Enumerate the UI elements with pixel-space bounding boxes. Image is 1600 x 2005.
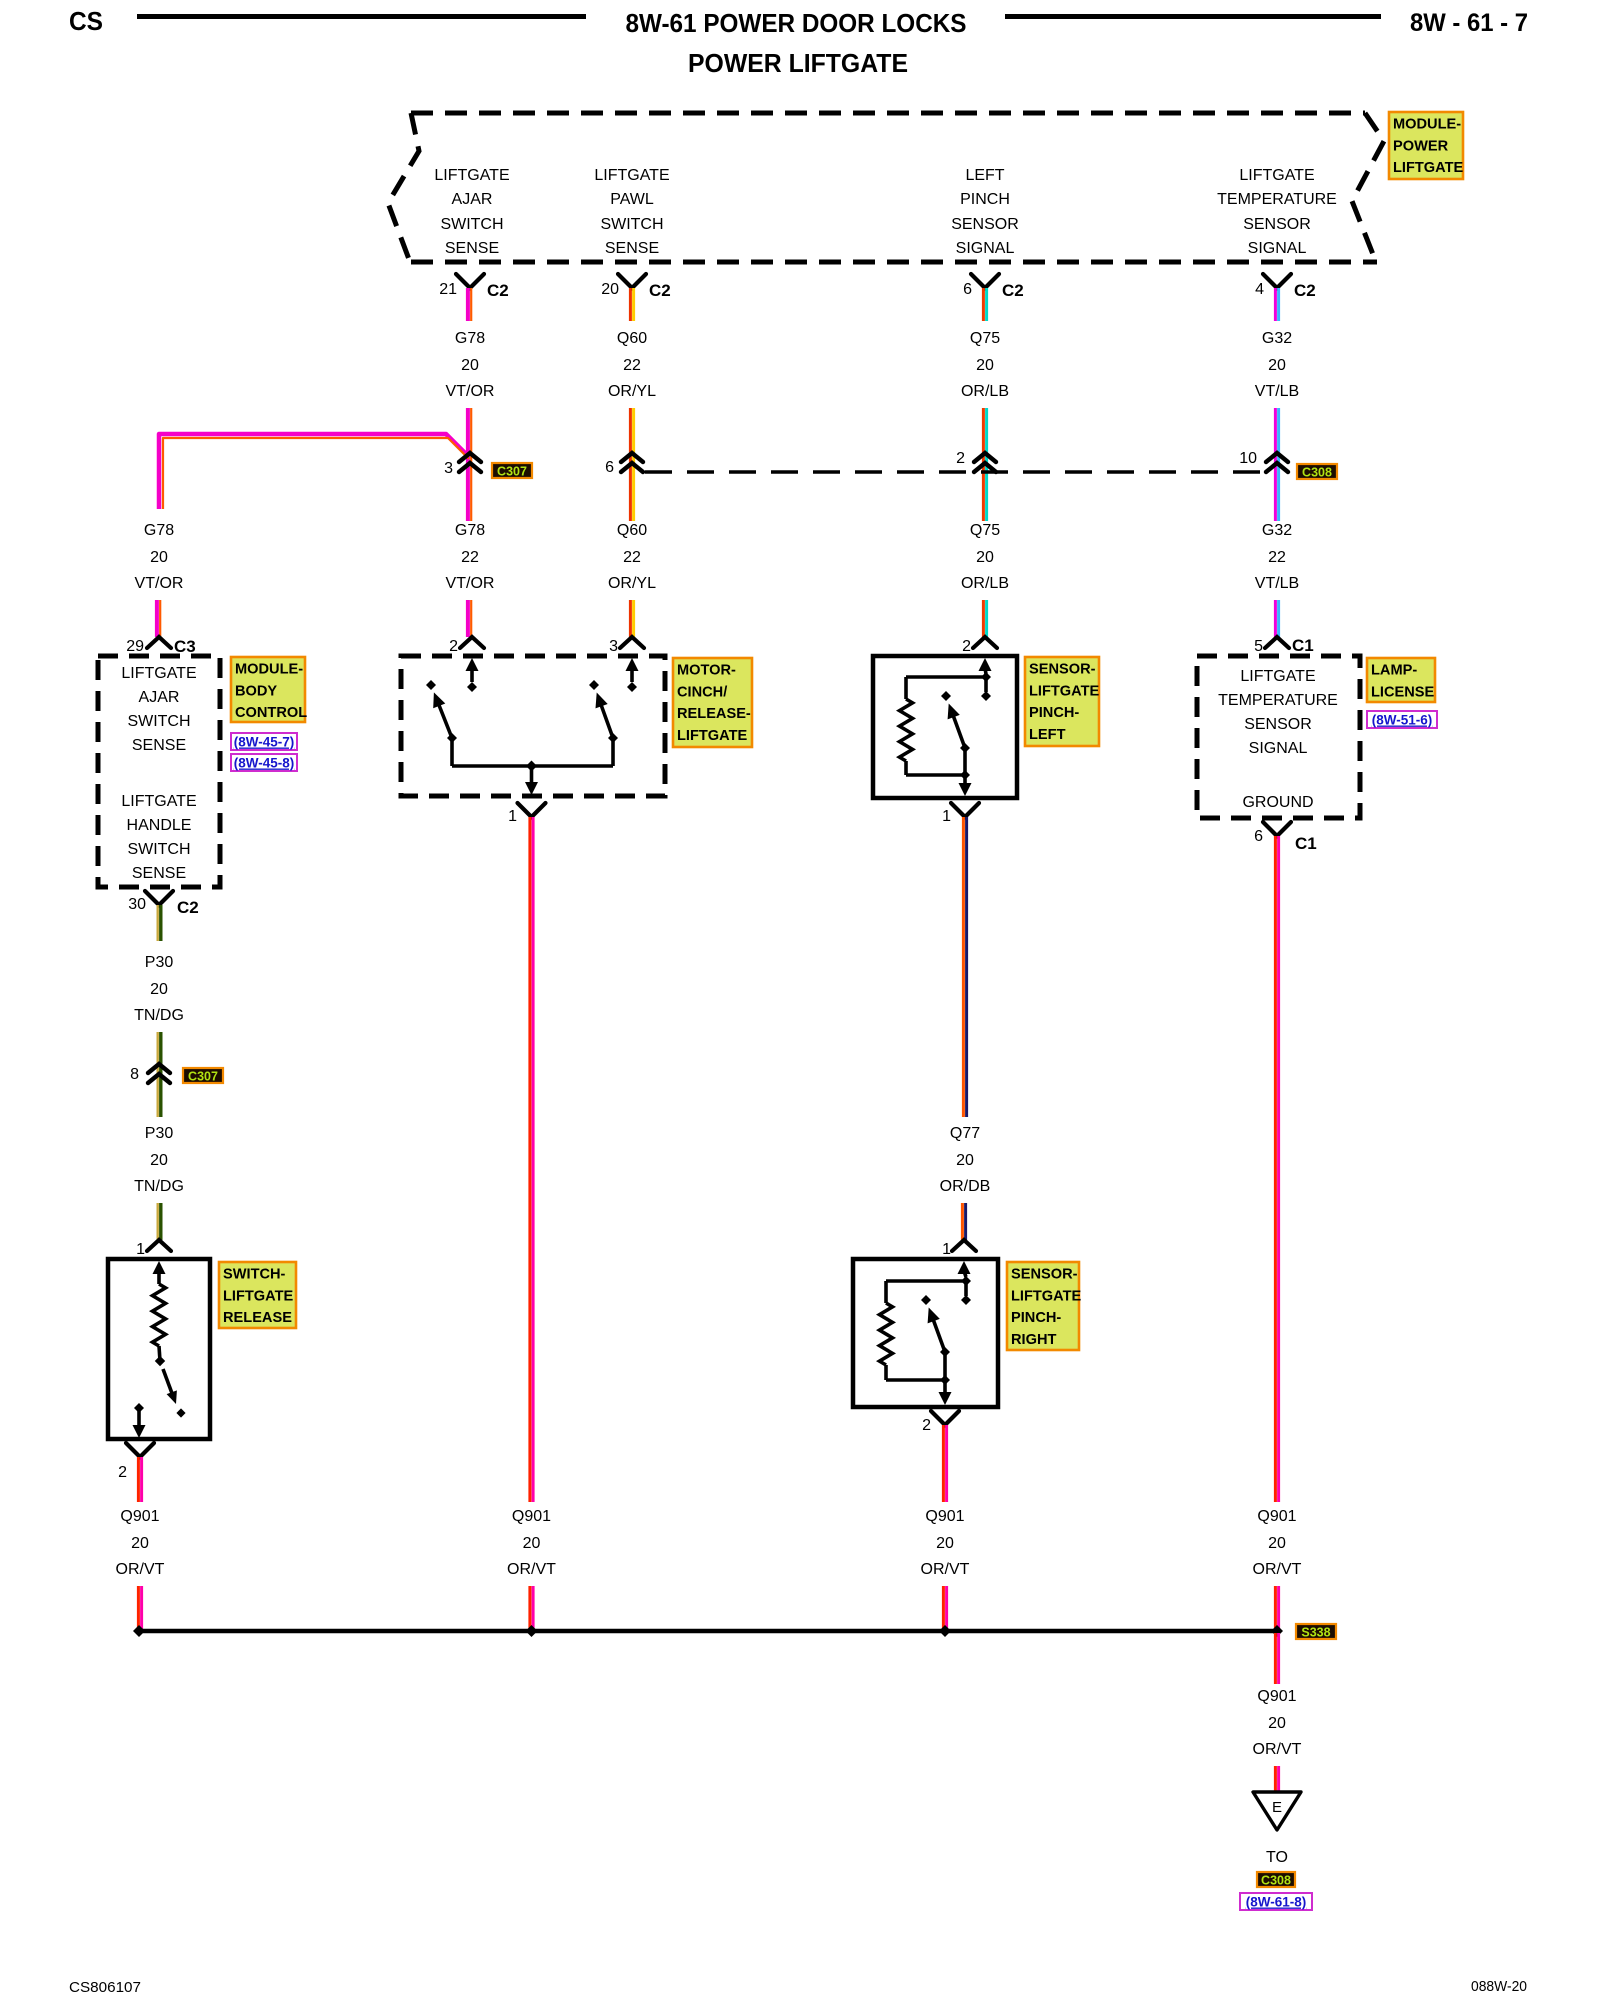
svg-text:TEMPERATURE: TEMPERATURE <box>1218 692 1338 709</box>
wire Q901 from release switch <box>138 1457 141 1502</box>
label LAMP-LICENSE <box>1367 658 1435 702</box>
svg-text:21: 21 <box>439 281 457 298</box>
label wire P30 20 TN/DG <box>134 954 184 1024</box>
wire Q75 to left pinch sensor <box>983 600 986 637</box>
svg-text:SENSE: SENSE <box>445 240 499 257</box>
svg-text:(8W-51-6): (8W-51-6) <box>1372 713 1433 728</box>
svg-text:SENSOR: SENSOR <box>951 216 1019 233</box>
svg-text:3: 3 <box>444 460 453 477</box>
wire Q901 from temperature sensor ground <box>1275 836 1278 1502</box>
body control module pin text liftgate handle switch sense <box>121 793 196 882</box>
pin number 21 <box>439 281 457 298</box>
svg-text:G32: G32 <box>1262 330 1292 347</box>
svg-text:LIFTGATE: LIFTGATE <box>677 728 748 744</box>
label MOTOR-CINCH/RELEASE-LIFTGATE <box>673 658 752 747</box>
label wire Q901 20 OR/VT <box>1253 1508 1302 1578</box>
svg-text:1: 1 <box>942 1241 951 1258</box>
label wire G78 20 VT/OR left <box>135 522 184 592</box>
svg-text:PINCH-: PINCH- <box>1011 1310 1061 1326</box>
left pinch pin 1 fork <box>951 803 979 817</box>
label wire Q77 20 OR/DB <box>940 1125 991 1195</box>
dashed wire link C307 to C308 row <box>645 470 1268 473</box>
connector C1 pin 5 fork <box>1265 637 1289 648</box>
wire G78 branch to body control module <box>159 434 469 509</box>
svg-text:(8W-45-8): (8W-45-8) <box>234 756 295 771</box>
module U2 BODY CONTROL dashed box <box>98 656 220 887</box>
svg-text:OR/LB: OR/LB <box>961 383 1009 400</box>
svg-text:SWITCH: SWITCH <box>127 713 190 730</box>
junction node S338 <box>1271 1625 1283 1637</box>
svg-text:LIFTGATE: LIFTGATE <box>1393 160 1464 176</box>
svg-text:C307: C307 <box>188 1070 218 1084</box>
svg-text:Q901: Q901 <box>1257 1688 1296 1705</box>
svg-text:OR/DB: OR/DB <box>940 1178 991 1195</box>
temperature sensor pin text <box>1218 668 1338 757</box>
svg-text:6: 6 <box>963 281 972 298</box>
svg-text:LIFTGATE: LIFTGATE <box>1011 1288 1082 1304</box>
svg-text:SWITCH: SWITCH <box>600 216 663 233</box>
svg-text:SENSOR-: SENSOR- <box>1011 1267 1078 1283</box>
svg-text:C2: C2 <box>1294 281 1316 300</box>
svg-text:TN/DG: TN/DG <box>134 1007 184 1024</box>
wire Q901 below splice <box>1275 1633 1278 1684</box>
svg-text:20: 20 <box>150 1152 168 1169</box>
footer drawing number <box>1471 1978 1527 1995</box>
wire G78 to body control module <box>157 600 160 637</box>
svg-text:MODULE-: MODULE- <box>235 662 303 678</box>
label wire Q60 22 OR/YL b <box>608 522 656 592</box>
motor pin 1 fork <box>518 803 546 817</box>
reference link 8W-51-6 <box>1367 711 1437 728</box>
svg-text:20: 20 <box>976 549 994 566</box>
svg-text:Q901: Q901 <box>1257 1508 1296 1525</box>
svg-text:VT/LB: VT/LB <box>1255 575 1299 592</box>
left pinch resistor branch <box>900 677 987 775</box>
svg-text:3: 3 <box>609 638 618 655</box>
sensor LIFTGATE TEMPERATURE dashed box (lamp-license) <box>1197 656 1360 818</box>
wire Q75 above C308 <box>983 408 986 521</box>
wire Q901 to splice col2 <box>530 1586 533 1631</box>
connector name C2 <box>649 281 671 300</box>
svg-text:LIFTGATE: LIFTGATE <box>1239 167 1314 184</box>
connector name C2 <box>1294 281 1316 300</box>
svg-text:AJAR: AJAR <box>139 689 180 706</box>
svg-text:20: 20 <box>131 1535 149 1552</box>
svg-text:C3: C3 <box>174 637 196 656</box>
connector C3 pin 29 fork <box>147 637 171 648</box>
svg-text:E: E <box>1272 1799 1282 1816</box>
svg-text:22: 22 <box>623 549 641 566</box>
svg-text:VT/OR: VT/OR <box>135 575 184 592</box>
wire Q75 from module pin 6 <box>983 288 986 321</box>
splice S338 bus wire <box>139 1629 1277 1634</box>
label wire Q901 20 OR/VT <box>921 1508 970 1578</box>
svg-text:TN/DG: TN/DG <box>134 1178 184 1195</box>
label wire Q901 20 OR/VT <box>507 1508 556 1578</box>
svg-text:5: 5 <box>1254 638 1263 655</box>
svg-text:4: 4 <box>1255 281 1264 298</box>
svg-text:MODULE-: MODULE- <box>1393 117 1461 133</box>
svg-text:Q901: Q901 <box>512 1508 551 1525</box>
svg-text:SWITCH: SWITCH <box>440 216 503 233</box>
connector label S338 <box>1296 1624 1336 1640</box>
svg-text:GROUND: GROUND <box>1242 794 1313 811</box>
wire P30 to release switch <box>158 1203 161 1240</box>
svg-text:CINCH/: CINCH/ <box>677 684 727 700</box>
release switch pin 1 fork <box>147 1240 171 1251</box>
temperature sensor ground text <box>1242 794 1313 811</box>
svg-text:088W-20: 088W-20 <box>1471 1978 1527 1995</box>
svg-text:SENSE: SENSE <box>605 240 659 257</box>
label wire G78 22 VT/OR <box>446 522 495 592</box>
svg-text:SENSE: SENSE <box>132 737 186 754</box>
wire Q77 from left pinch sensor <box>963 817 966 1117</box>
svg-text:AJAR: AJAR <box>452 191 493 208</box>
label wire Q901 20 OR/VT ground <box>1253 1688 1302 1758</box>
svg-text:OR/VT: OR/VT <box>116 1561 165 1578</box>
junction node col1 <box>133 1625 145 1637</box>
right pinch resistor branch <box>880 1281 967 1380</box>
svg-text:20: 20 <box>523 1535 541 1552</box>
connector label C308 bottom <box>1257 1872 1295 1888</box>
release switch blade <box>155 1346 186 1418</box>
right pinch switch blade <box>921 1295 952 1405</box>
svg-text:C2: C2 <box>1002 281 1024 300</box>
svg-text:VT/OR: VT/OR <box>446 575 495 592</box>
svg-text:2: 2 <box>118 1464 127 1481</box>
motor pin 3 fork <box>620 637 644 648</box>
svg-text:C308: C308 <box>1261 1874 1291 1888</box>
svg-text:20: 20 <box>150 981 168 998</box>
header rule right <box>1005 14 1381 19</box>
header page id CS <box>69 6 103 36</box>
svg-text:30: 30 <box>128 896 146 913</box>
svg-text:2: 2 <box>922 1417 931 1434</box>
header title <box>626 8 967 38</box>
svg-text:(8W-61-8): (8W-61-8) <box>1246 1895 1307 1910</box>
svg-text:1: 1 <box>508 808 517 825</box>
reference link 8W-45-8 <box>231 754 297 771</box>
svg-text:SENSE: SENSE <box>132 865 186 882</box>
svg-text:Q901: Q901 <box>925 1508 964 1525</box>
left pinch sensor pin 2 fork <box>973 637 997 648</box>
svg-text:RIGHT: RIGHT <box>1011 1332 1056 1348</box>
motor common node wire <box>452 761 613 796</box>
svg-text:LIFTGATE: LIFTGATE <box>223 1288 294 1304</box>
motor right switch blade <box>589 680 618 766</box>
svg-text:C2: C2 <box>487 281 509 300</box>
svg-text:RELEASE: RELEASE <box>223 1310 292 1326</box>
svg-text:CS806107: CS806107 <box>69 1979 141 1996</box>
module U1 MODULE-POWER LIFTGATE dashed outline <box>388 113 1384 262</box>
label wire Q75 20 OR/LB <box>961 330 1009 400</box>
wire Q60 above C307 <box>630 408 633 521</box>
label wire Q60 22 OR/YL <box>608 330 656 400</box>
wire P30 through C307 <box>158 1032 161 1117</box>
wire G78 to cinch motor <box>468 600 471 637</box>
connector C2 pin 6 fork <box>971 274 999 288</box>
svg-text:OR/VT: OR/VT <box>1253 1561 1302 1578</box>
reference link 8W-45-7 <box>231 733 297 750</box>
label wire G78 20 VT/OR <box>446 330 495 400</box>
wire Q901 from right pinch sensor <box>943 1425 946 1502</box>
svg-text:6: 6 <box>1254 828 1263 845</box>
svg-text:8: 8 <box>130 1066 139 1083</box>
svg-text:20: 20 <box>1268 1715 1286 1732</box>
svg-text:LICENSE: LICENSE <box>1371 684 1435 700</box>
svg-text:OR/YL: OR/YL <box>608 383 656 400</box>
svg-text:RELEASE-: RELEASE- <box>677 706 751 722</box>
svg-text:8W - 61 - 7: 8W - 61 - 7 <box>1410 9 1528 37</box>
svg-text:8W-61 POWER DOOR LOCKS: 8W-61 POWER DOOR LOCKS <box>626 8 967 38</box>
pin number 6 <box>963 281 972 298</box>
svg-text:LIFTGATE: LIFTGATE <box>594 167 669 184</box>
pin number 20 <box>601 281 619 298</box>
label wire Q901 20 OR/VT <box>116 1508 165 1578</box>
svg-text:1: 1 <box>136 1241 145 1258</box>
svg-text:2: 2 <box>449 638 458 655</box>
svg-text:20: 20 <box>1268 357 1286 374</box>
wire P30 from BCM pin 30 <box>158 905 161 941</box>
svg-text:OR/YL: OR/YL <box>608 575 656 592</box>
svg-text:20: 20 <box>601 281 619 298</box>
svg-text:20: 20 <box>461 357 479 374</box>
svg-text:6: 6 <box>605 459 614 476</box>
svg-text:LIFTGATE: LIFTGATE <box>434 167 509 184</box>
wire Q901 to splice col3 <box>943 1586 946 1631</box>
right pinch pin 2 fork <box>931 1411 959 1425</box>
svg-text:G78: G78 <box>144 522 174 539</box>
svg-text:20: 20 <box>956 1152 974 1169</box>
svg-text:Q75: Q75 <box>970 522 1000 539</box>
motor left switch blade <box>426 680 457 766</box>
svg-text:20: 20 <box>936 1535 954 1552</box>
label wire G32 22 VT/LB b <box>1255 522 1299 592</box>
svg-text:C308: C308 <box>1302 466 1332 480</box>
left pinch switch blade <box>941 691 972 796</box>
svg-text:SWITCH: SWITCH <box>127 841 190 858</box>
svg-text:SENSOR-: SENSOR- <box>1029 662 1096 678</box>
label MODULE-POWER LIFTGATE <box>1389 112 1464 179</box>
svg-text:G78: G78 <box>455 522 485 539</box>
connector C2 pin 30 fork <box>145 891 173 905</box>
header rule left <box>137 14 586 19</box>
label SENSOR-LIFTGATE PINCH-RIGHT <box>1007 1262 1082 1350</box>
wire G32 to temperature sensor <box>1275 600 1278 637</box>
svg-text:LIFTGATE: LIFTGATE <box>1029 683 1100 699</box>
svg-text:LEFT: LEFT <box>1029 727 1066 743</box>
right pinch contact arrow <box>958 1261 972 1305</box>
svg-text:CONTROL: CONTROL <box>235 705 307 721</box>
connector name C2 <box>487 281 509 300</box>
connector label C307 lower <box>183 1068 223 1084</box>
svg-text:SENSOR: SENSOR <box>1244 716 1312 733</box>
svg-text:2: 2 <box>956 450 965 467</box>
svg-text:G78: G78 <box>455 330 485 347</box>
label wire Q75 20 OR/LB b <box>961 522 1009 592</box>
svg-text:S338: S338 <box>1301 1626 1330 1640</box>
svg-text:C1: C1 <box>1295 834 1317 853</box>
release switch contact arrow top <box>153 1261 166 1284</box>
header subtitle <box>688 48 908 78</box>
connector label C307 <box>492 463 532 479</box>
svg-text:CS: CS <box>69 6 103 36</box>
text TO <box>1266 1849 1288 1866</box>
connector C2 pin 20 fork <box>618 274 646 288</box>
inline connector pin 6 <box>621 453 643 472</box>
svg-text:20: 20 <box>1268 1535 1286 1552</box>
wire Q901 to splice col4 <box>1275 1586 1278 1631</box>
label wire P30 20 TN/DG b <box>134 1125 184 1195</box>
label wire G32 20 VT/LB <box>1255 330 1299 400</box>
svg-text:SWITCH-: SWITCH- <box>223 1267 286 1283</box>
svg-text:SIGNAL: SIGNAL <box>1248 240 1307 257</box>
motor right contact arrow <box>626 658 639 692</box>
body control module pin text liftgate ajar switch sense <box>121 665 196 754</box>
svg-text:PINCH: PINCH <box>960 191 1010 208</box>
label MODULE-BODY CONTROL <box>231 657 307 722</box>
svg-text:G32: G32 <box>1262 522 1292 539</box>
motor pin 2 fork <box>460 637 484 648</box>
svg-text:LAMP-: LAMP- <box>1371 663 1417 679</box>
release switch lower contact <box>133 1403 146 1438</box>
connector C1 pin 6 fork <box>1263 822 1291 836</box>
svg-text:Q75: Q75 <box>970 330 1000 347</box>
release switch pin 2 fork <box>126 1443 154 1457</box>
connector label C308 <box>1297 464 1337 480</box>
svg-text:POWER: POWER <box>1393 138 1449 154</box>
wire Q901 to splice col1 <box>138 1586 141 1631</box>
svg-text:(8W-45-7): (8W-45-7) <box>234 735 295 750</box>
svg-text:MOTOR-: MOTOR- <box>677 663 736 679</box>
inline connector pin 2 <box>974 453 996 472</box>
svg-text:2: 2 <box>962 638 971 655</box>
svg-text:1: 1 <box>942 808 951 825</box>
svg-text:OR/VT: OR/VT <box>921 1561 970 1578</box>
module pin function text: liftgate temperature sensor signal <box>1217 167 1337 257</box>
svg-text:LEFT: LEFT <box>965 167 1004 184</box>
svg-text:PAWL: PAWL <box>610 191 654 208</box>
svg-text:C1: C1 <box>1292 636 1314 655</box>
svg-text:TO: TO <box>1266 1849 1288 1866</box>
svg-text:22: 22 <box>623 357 641 374</box>
svg-text:10: 10 <box>1239 450 1257 467</box>
svg-text:LIFTGATE: LIFTGATE <box>121 793 196 810</box>
connector name C2 <box>1002 281 1024 300</box>
module pin function text: liftgate ajar switch sense <box>434 167 509 257</box>
svg-text:20: 20 <box>150 549 168 566</box>
wire Q901 from motor pin 1 <box>530 817 533 1502</box>
svg-text:OR/VT: OR/VT <box>507 1561 556 1578</box>
switch S1 SWITCH-LIFTGATE RELEASE box <box>108 1259 210 1439</box>
wire G78 from module pin 21 <box>468 288 471 321</box>
wire G32 above C308 <box>1275 408 1278 521</box>
svg-text:P30: P30 <box>145 1125 174 1142</box>
inline connector C307 pin 8 <box>148 1064 170 1083</box>
wire G78 above C307 <box>468 408 471 521</box>
svg-text:C2: C2 <box>649 281 671 300</box>
svg-text:22: 22 <box>461 549 479 566</box>
wire Q77 to right pinch sensor <box>962 1203 965 1240</box>
module pin function text: liftgate pawl switch sense <box>594 167 669 257</box>
svg-text:VT/OR: VT/OR <box>446 383 495 400</box>
svg-text:C307: C307 <box>497 465 527 479</box>
inline connector pin 10 <box>1266 453 1288 472</box>
wire G32 from module pin 4 <box>1275 288 1278 321</box>
svg-text:OR/LB: OR/LB <box>961 575 1009 592</box>
left pinch contact arrow <box>979 658 992 701</box>
svg-text:Q60: Q60 <box>617 522 647 539</box>
svg-text:LIFTGATE: LIFTGATE <box>1240 668 1315 685</box>
connector C2 pin 4 fork <box>1263 274 1291 288</box>
svg-text:22: 22 <box>1268 549 1286 566</box>
svg-text:LIFTGATE: LIFTGATE <box>121 665 196 682</box>
svg-text:POWER LIFTGATE: POWER LIFTGATE <box>688 48 908 78</box>
release switch resistor <box>153 1284 166 1346</box>
svg-text:SIGNAL: SIGNAL <box>956 240 1015 257</box>
svg-text:Q77: Q77 <box>950 1125 980 1142</box>
junction node col3 <box>939 1625 951 1637</box>
junction node col2 <box>526 1625 538 1637</box>
svg-text:OR/VT: OR/VT <box>1253 1741 1302 1758</box>
right pinch pin 1 fork <box>952 1240 976 1251</box>
svg-text:TEMPERATURE: TEMPERATURE <box>1217 191 1337 208</box>
label SENSOR-LIFTGATE PINCH-LEFT <box>1025 657 1100 746</box>
ground G E symbol <box>1253 1792 1301 1830</box>
sensor SENSOR-LIFTGATE PINCH-RIGHT box <box>853 1259 998 1407</box>
header page number <box>1410 9 1528 37</box>
svg-text:C2: C2 <box>177 898 199 917</box>
svg-text:SIGNAL: SIGNAL <box>1249 740 1308 757</box>
svg-text:BODY: BODY <box>235 683 277 699</box>
footer sheet code <box>69 1979 141 1996</box>
sensor SENSOR-LIFTGATE PINCH-LEFT box <box>873 656 1017 798</box>
wire Q60 from module pin 20 <box>630 288 633 321</box>
inline connector pin 3 <box>459 453 481 472</box>
wire Q901 to ground <box>1275 1766 1278 1792</box>
motor left contact arrow <box>466 658 479 692</box>
svg-text:29: 29 <box>126 638 144 655</box>
connector C2 pin 21 fork <box>456 274 484 288</box>
svg-text:P30: P30 <box>145 954 174 971</box>
pin number 4 <box>1255 281 1264 298</box>
svg-text:PINCH-: PINCH- <box>1029 705 1079 721</box>
module pin function text: left pinch sensor signal <box>951 167 1019 257</box>
svg-text:Q60: Q60 <box>617 330 647 347</box>
motor M1 MOTOR-CINCH/RELEASE-LIFTGATE dashed box <box>401 656 665 796</box>
svg-text:20: 20 <box>976 357 994 374</box>
wire Q60 to cinch motor <box>630 600 633 637</box>
svg-text:VT/LB: VT/LB <box>1255 383 1299 400</box>
reference link 8W-61-8 <box>1240 1893 1312 1910</box>
label SWITCH-LIFTGATE RELEASE <box>219 1262 296 1328</box>
svg-text:HANDLE: HANDLE <box>127 817 192 834</box>
svg-text:Q901: Q901 <box>120 1508 159 1525</box>
svg-text:SENSOR: SENSOR <box>1243 216 1311 233</box>
